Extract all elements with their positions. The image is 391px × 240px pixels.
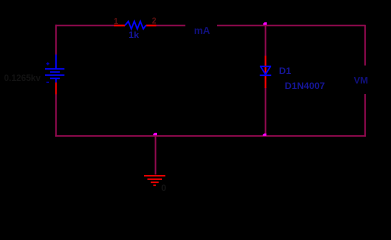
diode D1 cathode bar	[260, 74, 271, 76]
svg-text:1k: 1k	[129, 30, 140, 41]
ground symbol	[144, 176, 165, 186]
wire diode branch lower (diode cathode to bottom junction)	[265, 88, 267, 137]
wire top middle (resistor pin 2 to ammeter)	[156, 25, 185, 27]
wire right vertical (voltmeter bottom to bottom-right corner)	[364, 94, 366, 137]
wire top right (ammeter to top-right corner)	[217, 25, 366, 27]
battery bottom pin stub	[55, 78, 57, 82]
battery V1	[45, 55, 64, 83]
wire top-left horizontal (corner to resistor pin 1)	[56, 25, 115, 27]
ground bar 4	[153, 184, 156, 186]
wire right vertical (corner to voltmeter top)	[364, 25, 366, 66]
diode D1 red anode stub	[265, 56, 267, 75]
resistor R1 zigzag body	[125, 21, 146, 29]
ground bar 1	[144, 175, 165, 177]
diode D1 top edge	[260, 65, 271, 67]
wire diode branch upper (junction to diode anode)	[265, 25, 267, 56]
battery plate short bottom	[50, 77, 60, 79]
battery bottom red pin wire	[55, 83, 57, 95]
battery plate long	[45, 74, 64, 76]
junction node bottom right (diode branch tap)	[263, 134, 267, 136]
battery plate long top	[45, 68, 64, 70]
svg-text:0: 0	[161, 183, 166, 193]
battery top pin stub	[55, 55, 57, 69]
wire bottom horizontal	[55, 135, 366, 137]
ground bar 2	[147, 178, 162, 180]
svg-text:1: 1	[114, 17, 119, 26]
svg-text:2: 2	[152, 16, 157, 25]
svg-text:VM: VM	[354, 75, 368, 86]
wire left vertical (corner down to battery top)	[55, 25, 57, 55]
diode D1 red cathode stub	[265, 75, 267, 88]
diode D1 triangle body	[261, 66, 271, 75]
svg-text:D1: D1	[279, 66, 292, 77]
resistor R1 red pin 1 stub	[114, 25, 125, 27]
ground bar 3	[151, 181, 159, 183]
wire ground branch vertical	[155, 136, 157, 175]
svg-text:D1N4007: D1N4007	[285, 81, 325, 92]
battery minus sign	[46, 81, 49, 83]
svg-text:0.1265kv: 0.1265kv	[4, 73, 41, 83]
junction node top (diode branch tap)	[263, 22, 267, 25]
svg-text:mA: mA	[194, 26, 210, 37]
battery plate short	[50, 71, 60, 73]
junction node bottom left (ground tap)	[153, 133, 157, 135]
wire left vertical (battery bottom to bottom-left corner)	[55, 94, 57, 137]
battery plus sign	[46, 62, 49, 65]
resistor R1 red pin 2 stub	[146, 25, 156, 27]
